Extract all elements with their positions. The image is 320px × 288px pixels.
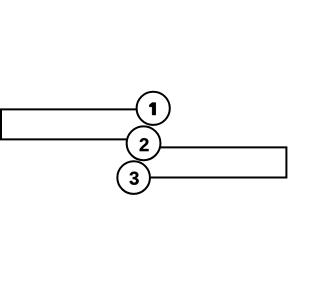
- circle 1: [137, 92, 170, 125]
- label 1: [149, 103, 156, 116]
- label 2: [140, 138, 149, 151]
- circle 2: [127, 126, 161, 160]
- label 3: [129, 172, 138, 185]
- right band rectangle: [135, 147, 286, 177]
- left band rectangle: [1, 109, 152, 139]
- circle 3: [117, 161, 150, 194]
